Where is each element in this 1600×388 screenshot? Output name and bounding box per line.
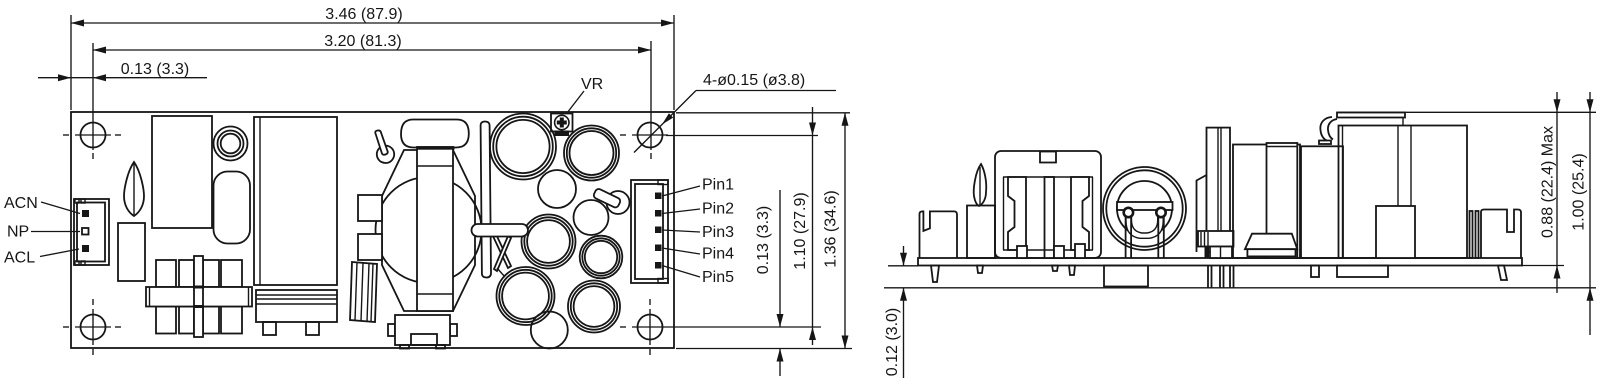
svg-text:VR: VR [581, 76, 603, 93]
svg-text:0.13 (3.3): 0.13 (3.3) [121, 61, 189, 78]
svg-text:1.36 (34.6): 1.36 (34.6) [823, 190, 840, 267]
svg-text:Pin3: Pin3 [702, 224, 734, 241]
svg-text:0.13 (3.3): 0.13 (3.3) [755, 206, 772, 274]
svg-text:Pin4: Pin4 [702, 246, 734, 263]
svg-text:Pin2: Pin2 [702, 201, 734, 218]
svg-text:NP: NP [7, 224, 29, 241]
svg-text:ACL: ACL [4, 250, 35, 267]
svg-text:1.10 (27.9): 1.10 (27.9) [792, 192, 809, 269]
svg-text:3.46 (87.9): 3.46 (87.9) [325, 6, 402, 23]
svg-text:Pin5: Pin5 [702, 269, 734, 286]
svg-text:ACN: ACN [4, 195, 38, 212]
svg-text:1.00 (25.4): 1.00 (25.4) [1571, 153, 1588, 230]
svg-text:4-ø0.15 (ø3.8): 4-ø0.15 (ø3.8) [703, 72, 805, 89]
svg-text:0.88 (22.4) Max: 0.88 (22.4) Max [1540, 126, 1557, 238]
svg-text:3.20 (81.3): 3.20 (81.3) [324, 33, 401, 50]
svg-text:0.12 (3.0): 0.12 (3.0) [884, 308, 901, 376]
svg-text:Pin1: Pin1 [702, 177, 734, 194]
